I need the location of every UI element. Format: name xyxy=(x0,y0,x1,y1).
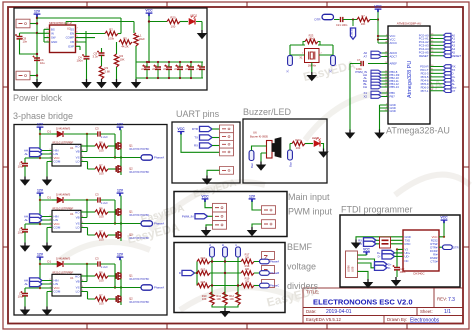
svg-text:Power block: Power block xyxy=(13,93,63,103)
title block texts xyxy=(306,290,447,323)
wire C8 top xyxy=(20,33,38,36)
LED2 xyxy=(189,16,196,25)
crystal X1 16MHz xyxy=(305,49,320,63)
CH340C left pin names xyxy=(405,235,411,263)
capacitor bank C10-C15,C20 22uF x7 xyxy=(141,62,205,78)
wire port to buzzer pin xyxy=(252,146,267,151)
svg-text:100n: 100n xyxy=(342,23,348,27)
svg-text:X1: X1 xyxy=(299,56,303,60)
resistor R4 10K xyxy=(95,38,117,54)
ground under LED2 xyxy=(198,30,207,39)
connector P1 xyxy=(16,19,30,28)
FTDI section box xyxy=(340,215,460,287)
net port X2 pin xyxy=(371,95,381,99)
svg-text:CH: CH xyxy=(363,85,367,89)
resistor R3 5.6K xyxy=(101,56,103,67)
wire RX to header xyxy=(212,145,220,147)
svg-text:3-phase bridge: 3-phase bridge xyxy=(13,111,73,121)
ground under PWM header xyxy=(202,227,211,236)
svg-text:Drawn By:: Drawn By: xyxy=(387,317,407,322)
grid horizontal rows xyxy=(210,262,241,286)
svg-text:R24: R24 xyxy=(295,138,301,142)
BEMF sense connector row C xyxy=(262,280,275,289)
battery header cell 1 xyxy=(262,206,276,215)
wire R7 to VCC rail xyxy=(370,19,378,21)
right side net ports PD0..PD7 xyxy=(444,65,458,93)
wire VCC to LED branch xyxy=(149,21,167,23)
wires right resistors to ports xyxy=(254,262,260,286)
wire pulldown common to ground xyxy=(212,305,238,309)
capacitor C4 100n xyxy=(85,31,87,56)
svg-text:Electronoobs: Electronoobs xyxy=(410,318,440,324)
svg-text:UART pins: UART pins xyxy=(176,109,220,119)
wire port to left rail xyxy=(195,272,198,274)
ground FTDI top left xyxy=(352,240,361,249)
net port BemfB xyxy=(260,271,270,276)
ground under AREF rail xyxy=(346,130,355,139)
svg-text:PhaseA: PhaseA xyxy=(270,260,279,264)
net port TX xyxy=(200,135,213,140)
svg-text:GND: GND xyxy=(390,109,396,113)
MCU left pin stubs xyxy=(368,36,388,111)
CH340C right pin names xyxy=(430,238,438,263)
wire port to R24 xyxy=(290,144,292,151)
svg-text:VCC: VCC xyxy=(374,5,382,9)
svg-text:5.6K: 5.6K xyxy=(105,70,111,74)
UART pins section box xyxy=(172,122,240,183)
svg-text:22uF: 22uF xyxy=(174,69,180,71)
svg-text:RX: RX xyxy=(194,144,198,148)
svg-text:R15: R15 xyxy=(201,267,206,271)
svg-text:PWM_IN: PWM_IN xyxy=(182,215,194,219)
BEMF sense connector row A xyxy=(262,252,275,261)
wire top feed 1 xyxy=(37,18,121,34)
svg-text:PB7: PB7 xyxy=(390,95,396,99)
svg-text:FTDI programmer: FTDI programmer xyxy=(341,205,413,215)
svg-text:10uF: 10uF xyxy=(139,37,146,41)
wire TX to header xyxy=(212,137,220,139)
svg-text:CTS#: CTS# xyxy=(430,259,438,263)
resistor R17 10K row A right xyxy=(241,259,254,263)
Main input section box xyxy=(174,192,287,237)
svg-text:TX: TX xyxy=(359,242,363,246)
svg-text:D+: D+ xyxy=(388,263,392,267)
svg-text:VCC: VCC xyxy=(363,247,370,251)
net port BH pin xyxy=(371,79,381,83)
resistor R24 100 xyxy=(292,141,305,145)
net port BemfC xyxy=(260,283,270,288)
svg-text:A7: A7 xyxy=(363,55,367,59)
net port BemfA xyxy=(260,259,270,264)
resistor R20 100 xyxy=(167,19,180,23)
svg-text:BEMF: BEMF xyxy=(287,242,313,252)
ground under crystal xyxy=(307,72,316,81)
wire VCC to header xyxy=(205,201,213,207)
svg-text:COMP: COMP xyxy=(66,36,75,40)
svg-text:C14: C14 xyxy=(186,66,191,68)
MCU left pin numbers xyxy=(385,35,388,112)
svg-text:R20: R20 xyxy=(170,16,176,20)
svg-text:C: C xyxy=(234,244,238,246)
phase sense port U top xyxy=(210,247,215,257)
net port DTR out xyxy=(439,246,443,248)
net port chip TXD xyxy=(364,238,377,243)
svg-text:R13: R13 xyxy=(201,256,206,260)
svg-text:VCC: VCC xyxy=(440,216,448,220)
svg-text:RXD: RXD xyxy=(405,242,411,246)
wire USB D- to port xyxy=(358,259,375,264)
svg-text:10K: 10K xyxy=(216,297,221,301)
svg-text:D+: D+ xyxy=(377,251,381,255)
PWM header 3 cells xyxy=(213,203,227,212)
svg-text:dividers: dividers xyxy=(287,281,319,291)
svg-text:Date:: Date: xyxy=(306,309,317,314)
ground under 12V rail xyxy=(33,79,42,88)
svg-text:10u: 10u xyxy=(40,61,45,65)
resistor R7 10K reset pullup xyxy=(357,17,370,21)
left rail of divider matrix xyxy=(196,262,198,286)
svg-text:A: A xyxy=(208,244,212,246)
svg-text:44.2K: 44.2K xyxy=(121,45,128,49)
svg-text:ATMEGA328P-AU: ATMEGA328P-AU xyxy=(397,22,422,26)
svg-text:C10: C10 xyxy=(142,66,147,68)
net port ADC7 xyxy=(371,55,381,59)
svg-text:22uF: 22uF xyxy=(185,69,191,71)
net port USB D+ xyxy=(375,262,388,267)
svg-text:10M: 10M xyxy=(308,36,313,40)
USB connector J1 xyxy=(346,251,358,278)
net port X1 left xyxy=(288,56,293,66)
net port RX xyxy=(200,143,213,148)
resistor R2 100k xyxy=(105,31,118,35)
grid verticals from top ports xyxy=(212,257,238,298)
AREF capacitor C7 100n xyxy=(361,61,363,66)
net port BL pin xyxy=(371,82,381,86)
svg-text:X2: X2 xyxy=(363,95,367,99)
svg-text:R5: R5 xyxy=(123,36,127,40)
svg-text:D-: D- xyxy=(378,255,381,259)
phase C driver stage xyxy=(18,253,165,316)
wire P1 to rail xyxy=(30,23,37,25)
svg-text:DTR: DTR xyxy=(453,245,459,249)
svg-text:10K: 10K xyxy=(361,22,366,26)
svg-text:R7: R7 xyxy=(361,14,365,18)
wire DTR to C21 xyxy=(334,19,340,21)
ground in UART box xyxy=(203,176,212,185)
svg-text:100n: 100n xyxy=(400,270,406,274)
MCU right pin stubs xyxy=(430,35,444,91)
wire VCC to chip xyxy=(439,223,444,237)
phase A driver stage xyxy=(18,123,165,186)
net port UD+ xyxy=(382,250,395,255)
svg-text:12V: 12V xyxy=(249,194,256,198)
svg-text:100: 100 xyxy=(296,146,301,150)
svg-text:ATmega328-AU: ATmega328-AU xyxy=(386,126,450,136)
svg-text:100: 100 xyxy=(171,24,176,28)
svg-text:MP2307DN-LF-Z: MP2307DN-LF-Z xyxy=(49,21,72,25)
svg-text:Buzzer/LED: Buzzer/LED xyxy=(243,107,292,117)
junction dots on cap bank rails xyxy=(146,61,192,79)
svg-text:22uF: 22uF xyxy=(152,69,158,71)
wire DTR to header xyxy=(212,128,220,130)
wire P2 to rail xyxy=(30,75,37,77)
phase sense port V top xyxy=(223,247,228,257)
wire USB D+ to port xyxy=(358,263,375,268)
net port AH pin xyxy=(371,73,381,77)
frame tick marks bottom xyxy=(87,324,407,330)
svg-text:Buzzer KI-0905: Buzzer KI-0905 xyxy=(250,135,268,139)
svg-text:RESET: RESET xyxy=(452,54,462,58)
svg-text:12V: 12V xyxy=(34,10,41,14)
svg-text:R16: R16 xyxy=(201,280,206,284)
ground BEMF xyxy=(221,308,230,317)
crystal bottom to ground xyxy=(311,63,313,73)
ground after LED4 xyxy=(319,149,328,158)
net port USB D- xyxy=(375,265,388,270)
wire LED4 to ground xyxy=(321,144,324,149)
resistor R13 10K row A left xyxy=(196,261,198,263)
wire C8 bottom xyxy=(20,39,38,54)
junction dots on 12V rail xyxy=(36,17,38,77)
ground under C22 xyxy=(392,277,401,286)
svg-text:C15: C15 xyxy=(197,66,202,68)
wire top feed 2 xyxy=(66,22,134,34)
svg-text:CH340C: CH340C xyxy=(413,272,425,276)
wire C21 to R7 junction xyxy=(343,19,357,21)
wire VCC rail to power pins xyxy=(378,12,382,43)
ground under USB xyxy=(364,279,373,288)
svg-text:VCC: VCC xyxy=(145,9,153,13)
capacitor C8 10n xyxy=(15,34,23,39)
ground under battery header xyxy=(248,227,257,236)
svg-text:DTR: DTR xyxy=(192,127,198,131)
resistor R23 10M xyxy=(305,39,318,43)
wires TXD/RXD ports to chip xyxy=(376,240,403,244)
resistor R5 44.2K xyxy=(119,40,132,44)
svg-text:22uF: 22uF xyxy=(196,69,202,71)
svg-text:10n: 10n xyxy=(23,40,28,44)
MCU right pin names xyxy=(419,33,429,93)
wire AREF cap to gnd rail xyxy=(350,63,361,65)
svg-text:D: D xyxy=(179,271,181,275)
filter component F1 xyxy=(380,237,391,248)
svg-text:22uF: 22uF xyxy=(141,69,147,71)
crystal parallel wires xyxy=(290,45,333,56)
net port DTR reset xyxy=(322,14,334,19)
ground under MCU gnd pins xyxy=(375,130,384,139)
svg-text:voltage: voltage xyxy=(287,262,316,272)
svg-text:7.3: 7.3 xyxy=(448,297,455,303)
svg-text:10K: 10K xyxy=(245,255,250,259)
svg-text:USB: USB xyxy=(351,266,355,272)
svg-text:Main input: Main input xyxy=(288,192,330,202)
ground under R3 xyxy=(97,79,106,88)
resistor R15 10K row B left xyxy=(197,271,210,275)
net port DTR xyxy=(200,126,213,131)
frame tick marks left xyxy=(3,87,8,247)
svg-text:B: B xyxy=(221,244,225,246)
net port X1 pin xyxy=(371,91,381,95)
svg-text:1/1: 1/1 xyxy=(444,309,451,315)
svg-text:10K: 10K xyxy=(245,279,250,283)
svg-text:RX: RX xyxy=(358,239,362,243)
svg-text:USB0: USB0 xyxy=(347,265,351,272)
net port RESET vertical xyxy=(352,20,354,27)
BEMF sense connector row B xyxy=(262,266,275,275)
buzzer body xyxy=(267,141,273,159)
ground under R4 xyxy=(112,79,121,88)
wire VCC to header pin4 xyxy=(181,134,220,152)
svg-text:R2: R2 xyxy=(109,28,113,32)
BEMF section box xyxy=(174,243,285,313)
watermark swoosh backdrop xyxy=(60,92,470,310)
wire buzzer pin2 to ground xyxy=(261,153,267,162)
svg-text:RESET: RESET xyxy=(350,28,354,37)
title block xyxy=(303,288,463,324)
resistor R18 10K row B right xyxy=(241,271,254,275)
svg-text:D-: D- xyxy=(388,266,391,270)
svg-text:Buz: Buz xyxy=(250,162,254,168)
buzzer speaker cone xyxy=(272,138,281,158)
svg-text:VCC: VCC xyxy=(201,194,209,198)
pulldown resistor R12 100K xyxy=(236,292,240,305)
svg-text:C7: C7 xyxy=(357,58,361,62)
svg-text:10K: 10K xyxy=(120,58,125,62)
phase B driver stage xyxy=(18,189,165,252)
wire MCU gnd pins to ground xyxy=(379,105,381,130)
svg-text:U6: U6 xyxy=(253,131,257,135)
ground under buzzer xyxy=(257,162,266,171)
junction dots in grid xyxy=(211,260,239,286)
wire header pin3 to ground xyxy=(206,225,213,227)
svg-text:PD7-1: PD7-1 xyxy=(421,89,429,93)
svg-text:10K: 10K xyxy=(202,297,207,301)
svg-text:100k: 100k xyxy=(108,36,115,40)
net port CH pin xyxy=(371,85,381,89)
svg-text:VCC: VCC xyxy=(432,235,438,239)
capacitor C6 10u on rail xyxy=(33,56,41,61)
net port chip RXD xyxy=(364,241,377,246)
wire 12V to battery header xyxy=(252,201,262,210)
wires UD ports to chip xyxy=(395,253,404,257)
capacitor C22 100n xyxy=(393,265,401,270)
wire ground cell to gnd xyxy=(207,170,220,175)
svg-text:C13: C13 xyxy=(175,66,180,68)
MCU U1 ATmega328-AU body xyxy=(388,26,430,124)
svg-text:UD-: UD- xyxy=(405,254,410,258)
U2 right pin wires xyxy=(76,34,106,51)
net port PWM_IN xyxy=(195,214,208,219)
net port ADC6 xyxy=(371,51,381,55)
output capacitor bank rails xyxy=(136,62,203,78)
ground under C4 xyxy=(82,79,91,88)
svg-text:LED4: LED4 xyxy=(312,136,319,140)
svg-text:LED2: LED2 xyxy=(190,14,197,18)
inductor L1 xyxy=(134,33,138,46)
U2 left pin wires xyxy=(37,29,50,42)
battery header cell 2 xyxy=(262,220,276,229)
svg-text:3.3n: 3.3n xyxy=(93,55,99,59)
svg-text:10K: 10K xyxy=(245,267,250,271)
wire GND pin to ground xyxy=(356,237,403,240)
UART header connector 4 cells xyxy=(220,125,234,133)
capacitor C9 3.3n xyxy=(101,48,103,53)
net port PWM input pin xyxy=(371,70,381,74)
wire cap to ground xyxy=(396,270,398,277)
svg-text:PhaseB: PhaseB xyxy=(270,271,279,275)
svg-text:EasyEDA V5.5.12: EasyEDA V5.5.12 xyxy=(306,317,341,322)
net port virtual neutral input xyxy=(182,270,195,275)
svg-text:DTR: DTR xyxy=(315,18,321,22)
svg-text:AREF: AREF xyxy=(390,62,398,66)
net port AL pin xyxy=(371,76,381,80)
wire battery header to ground xyxy=(252,224,262,227)
svg-text:Atmega328 PU: Atmega328 PU xyxy=(407,61,413,98)
LED4 xyxy=(314,138,321,147)
frame tick marks top xyxy=(87,2,407,7)
Buzzer/LED section box xyxy=(243,119,327,183)
regulator U2 MP2307DN-LF-Z xyxy=(50,25,76,53)
net port X2 right xyxy=(331,56,336,66)
frame tick marks right xyxy=(463,87,469,247)
svg-text:ADC7: ADC7 xyxy=(390,55,398,59)
wire 12V rail vertical xyxy=(36,17,38,79)
pulldown resistor R11 100K xyxy=(223,292,227,305)
phase sense port W top xyxy=(236,247,241,257)
pulldown resistor R10 100K xyxy=(210,292,214,305)
svg-text:PhaseC: PhaseC xyxy=(270,284,279,288)
svg-text:D7: D7 xyxy=(452,89,456,93)
power block section box xyxy=(14,8,207,90)
capacitor C21 100n reset series xyxy=(341,17,343,22)
MCU left pin names xyxy=(390,34,400,113)
svg-text:100n: 100n xyxy=(77,59,84,63)
ground under capacitor bank xyxy=(135,78,137,79)
3-phase bridge section box xyxy=(14,125,167,316)
svg-text:AVCC: AVCC xyxy=(390,41,398,45)
svg-text:2019-04-01: 2019-04-01 xyxy=(326,309,352,315)
svg-text:EXP: EXP xyxy=(68,44,74,48)
svg-text:C12: C12 xyxy=(164,66,169,68)
svg-text:SW: SW xyxy=(51,36,56,40)
svg-text:Buz: Buz xyxy=(288,161,292,167)
svg-text:Sheet:: Sheet: xyxy=(420,309,433,314)
svg-text:ELECTRONOONS ESC V2.0: ELECTRONOONS ESC V2.0 xyxy=(313,298,413,307)
resistor R16 10K row C left xyxy=(197,283,210,287)
long ground rail left of MCU xyxy=(349,64,351,130)
UART ground cell xyxy=(220,167,234,175)
svg-text:TX: TX xyxy=(194,136,198,140)
wire USB GND to ground xyxy=(358,271,369,279)
resistor R19 10K row C right xyxy=(241,283,254,287)
net port LED input xyxy=(288,150,293,160)
net port buzzer input xyxy=(249,151,254,161)
wire V3 pin to cap xyxy=(397,249,403,267)
svg-text:VCC: VCC xyxy=(177,127,185,131)
svg-text:10K: 10K xyxy=(229,297,234,301)
svg-text:NC: NC xyxy=(405,259,409,263)
wire PWM_IN to header xyxy=(208,215,213,217)
wire R24 to LED4 xyxy=(305,143,313,145)
wire USB VBUS to VCC xyxy=(358,253,367,256)
connector P2 xyxy=(16,71,30,80)
svg-text:PB5-13: PB5-13 xyxy=(390,85,400,89)
svg-text:22uF: 22uF xyxy=(163,69,169,71)
svg-text:REV:: REV: xyxy=(437,297,447,302)
svg-text:RESET: RESET xyxy=(419,54,429,58)
USB-serial U5 CH340C body xyxy=(403,230,439,271)
svg-text:PWM input: PWM input xyxy=(288,207,333,217)
